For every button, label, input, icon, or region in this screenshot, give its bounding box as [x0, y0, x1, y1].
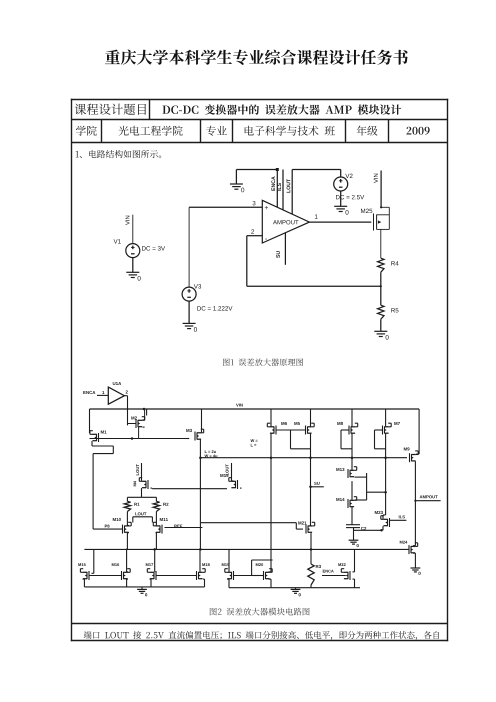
- SU stub: [309, 486, 312, 489]
- wire M1 drain to long left vertical: [92, 445, 113, 447]
- gate tie M6-M5 and diode loop: [276, 429, 305, 431]
- transistor M14: [336, 498, 344, 501]
- cascode node stub to AMPOUT column: [367, 491, 387, 493]
- table frame: [71, 99, 448, 101]
- wire M4 to M15: [152, 488, 225, 490]
- table row2 text: [76, 126, 97, 136]
- transistor M1: [101, 430, 107, 433]
- wire rail to M1: [89, 409, 91, 433]
- net VIN at M25: [380, 171, 382, 208]
- resistor R2: [153, 501, 159, 511]
- source rail left group and ground: [84, 586, 204, 588]
- ground left group: [137, 588, 147, 590]
- buffer U1A with input ENCA: [83, 391, 95, 394]
- voltage source V3 DC=1.222V: [182, 287, 196, 301]
- size note W= L= near M6: [251, 439, 258, 442]
- ground below R5: [374, 330, 387, 332]
- ground right group: [291, 588, 301, 590]
- wire U1A output to M2 gate: [124, 395, 127, 397]
- R1 R2 top rail: [127, 496, 156, 498]
- LOUT node label and staple wire: [135, 512, 146, 515]
- op-amp top pin ILS: [282, 170, 284, 210]
- op-amp top pin ENCA to ground: [276, 170, 278, 208]
- voltage source V1 DC=3V with net VIN: [126, 244, 140, 258]
- op-amp top pin LOUT to V2: [291, 170, 293, 215]
- resistor R1: [124, 501, 130, 511]
- bottom mirror transistor M18: [202, 563, 209, 566]
- body line 1: [76, 150, 162, 158]
- transistor M2: [131, 416, 137, 419]
- input pair transistor M11 gate REF: [160, 518, 168, 521]
- op-amp bottom pin SU: [284, 233, 286, 265]
- ground at ENCA: [230, 183, 243, 185]
- pin 1 output wire: [309, 221, 371, 223]
- transistor M13: [336, 468, 344, 471]
- bottom mirror transistor M17: [146, 563, 153, 566]
- LOUT wire right: [226, 464, 229, 475]
- transistor M15: [220, 474, 228, 477]
- wire gate mirror M1-M3: [90, 438, 188, 440]
- resistor R4: [378, 258, 384, 272]
- source rail right group and ground: [229, 587, 360, 589]
- wire V1 to ground: [132, 258, 134, 273]
- size note L=2u W=4u: [205, 450, 216, 453]
- transistor M22 with ENCA gate: [338, 563, 345, 566]
- caption fig2: [210, 608, 310, 616]
- transistor M5: [294, 422, 300, 425]
- caption fig1: [223, 358, 303, 366]
- ground below V3: [183, 322, 196, 324]
- bottom mirror transistor M16: [112, 563, 119, 566]
- VIN supply rail: [90, 408, 420, 410]
- ground below V1: [126, 271, 139, 273]
- ground below V2: [334, 205, 347, 207]
- long vertical M3 drain down to REF line: [199, 456, 202, 459]
- AMPOUT stub: [414, 500, 416, 502]
- resistor R5: [378, 305, 384, 319]
- capacitor C2: [351, 507, 353, 525]
- title: [105, 50, 408, 65]
- ground below C2: [349, 539, 359, 541]
- bottom mirror transistor M19: [222, 563, 229, 566]
- wire V3 to ground: [188, 301, 190, 323]
- op-amp AMPOUT: [262, 200, 309, 243]
- transistor M4 (left LOUT device): [133, 481, 136, 486]
- transistor M24 output stage: [400, 541, 407, 544]
- ground below M24: [411, 567, 421, 569]
- bottom row text: [84, 631, 440, 640]
- gate bias line across: [200, 457, 407, 459]
- transistor M25 (PMOS): [361, 209, 372, 213]
- transistor M6: [281, 422, 287, 425]
- transistor M23 with ILS gate: [375, 511, 383, 514]
- wire C2 node to M23: [354, 529, 382, 531]
- resistor R3: [308, 564, 314, 585]
- transistor M7 (diode connected): [394, 422, 400, 425]
- LOUT wire left: [136, 464, 139, 475]
- input pair transistor M10 gate P8: [113, 518, 121, 521]
- transistor M3: [186, 429, 192, 432]
- extension of M3 drain vertical to bias rail: [199, 523, 201, 550]
- voltage source V2 DC=2.5V: [334, 177, 348, 191]
- wire V2 to ground: [340, 191, 342, 206]
- bias rail bottom: [84, 548, 407, 550]
- pin 2 wire (inverting input, feedback): [247, 235, 262, 237]
- transistor M8 (diode connected): [337, 422, 343, 425]
- transistor M9: [404, 447, 410, 450]
- transistor M21: [298, 521, 306, 524]
- table row1 text: [75, 104, 147, 115]
- bottom mirror transistor M16a: [78, 563, 85, 566]
- pin 3 wire (non-inverting input): [189, 206, 262, 208]
- bottom mirror transistor M20 (diode): [256, 563, 263, 566]
